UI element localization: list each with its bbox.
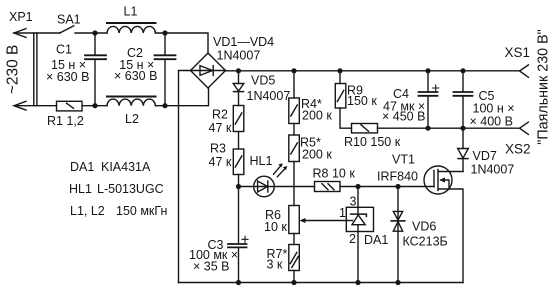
svg-text:2: 2 xyxy=(349,232,356,246)
svg-text:150 к: 150 к xyxy=(347,94,377,108)
resistor R1 label xyxy=(47,114,84,128)
wire bottom AC from XP1 to R1 xyxy=(14,105,57,107)
bridge rectifier VD1-VD4 diamond xyxy=(191,53,226,88)
capacitor C4 label xyxy=(382,87,425,124)
resistor R8 xyxy=(315,182,341,192)
svg-text:VD1—VD4: VD1—VD4 xyxy=(213,35,274,49)
diode VD7 xyxy=(462,128,464,148)
wire bottom AC from L2 to bridge bottom corner xyxy=(156,88,209,106)
zener VD6 (symmetric) xyxy=(397,187,399,283)
svg-text:HL1: HL1 xyxy=(250,154,273,168)
svg-text:× 450 В: × 450 В xyxy=(382,110,425,124)
node junction dot rail at R4 xyxy=(291,68,296,73)
svg-text:IRF840: IRF840 xyxy=(377,169,418,183)
capacitor C1 label xyxy=(46,43,89,84)
LED HL1 label xyxy=(250,154,273,168)
wire R3 to C3 through node xyxy=(238,175,240,245)
diode VD5 label xyxy=(247,74,291,104)
connector XS2 xyxy=(520,122,529,134)
svg-text:R3: R3 xyxy=(210,142,226,156)
resistor R9 xyxy=(335,84,346,109)
svg-text:XP1: XP1 xyxy=(9,10,33,24)
svg-text:× 630 В: × 630 В xyxy=(46,70,89,84)
capacitor C4 electrolytic xyxy=(427,71,429,92)
wire R9 to R10 xyxy=(340,108,352,128)
wire DA1 ref to R6 wiper xyxy=(304,220,347,222)
svg-text:VD5: VD5 xyxy=(251,74,275,88)
resistor R2 xyxy=(233,106,244,132)
svg-text:× 400 В: × 400 В xyxy=(470,115,513,129)
wire bottom AC from R1 to L2 xyxy=(82,105,107,107)
wire top AC from SA1 to L1 xyxy=(75,32,107,34)
load label Paylnik 230 V xyxy=(536,29,550,144)
capacitor C3 label xyxy=(189,238,238,274)
transistor VT1 source tap xyxy=(438,189,463,283)
inductor L1 core bar xyxy=(107,22,156,24)
node junction dot XS2 line C5 xyxy=(460,126,465,131)
bridge rectifier label VD1-VD4 1N4007 xyxy=(213,35,274,62)
capacitor C5 xyxy=(462,71,464,92)
zener VD6 label xyxy=(403,220,448,249)
svg-text:R10 150 к: R10 150 к xyxy=(344,135,401,149)
svg-text:C1: C1 xyxy=(56,43,72,57)
connector XP1 (mains plug, top arrow) xyxy=(14,29,26,38)
svg-text:3: 3 xyxy=(350,195,357,209)
capacitor C5 label xyxy=(470,89,515,129)
wire XS2 line from R10 to XS2 xyxy=(378,127,520,129)
node junction dot rail at C4 xyxy=(425,68,430,73)
svg-text:3 к: 3 к xyxy=(267,258,283,272)
diode VD7 label xyxy=(471,149,515,177)
inductor L2 label xyxy=(125,112,139,126)
transistor VT1 channel bar xyxy=(437,170,439,191)
capacitor C3 electrolytic xyxy=(228,243,247,245)
wire cable pair marks xyxy=(34,33,37,106)
inductor L1 label xyxy=(124,5,138,19)
capacitor C2 xyxy=(164,33,166,55)
svg-text:200 к: 200 к xyxy=(302,109,332,123)
svg-text:1N4007: 1N4007 xyxy=(247,89,291,103)
node junction dot bottom at C1 xyxy=(92,103,97,108)
wire R5 to R6 crossing gate line xyxy=(293,162,295,206)
svg-text:HL1L-5013UGC: HL1L-5013UGC xyxy=(69,182,164,196)
svg-text:L1: L1 xyxy=(124,5,138,19)
svg-text:VD7: VD7 xyxy=(473,149,497,163)
wire negative: bridge left corner down to bottom rail xyxy=(179,71,191,283)
switch SA1 label xyxy=(57,13,81,27)
svg-text:L1, L2150 мкГн: L1, L2150 мкГн xyxy=(70,204,167,218)
connector XP1 label xyxy=(9,10,33,24)
node junction dot bottom rail C3 xyxy=(236,280,241,285)
node junction dot rail at VD5 xyxy=(236,68,241,73)
svg-text:~230 В: ~230 В xyxy=(4,45,21,95)
diode VD5 xyxy=(238,71,240,84)
svg-text:200 к: 200 к xyxy=(302,148,332,162)
svg-text:XS1: XS1 xyxy=(505,45,531,60)
svg-text:47 к: 47 к xyxy=(209,155,232,169)
node junction dot top at C1 xyxy=(92,30,97,35)
svg-text:DA1: DA1 xyxy=(364,233,388,247)
node junction dot R3/HL1/C3 xyxy=(236,184,241,189)
svg-text:XS2: XS2 xyxy=(505,142,531,157)
svg-text:100 н ×: 100 н × xyxy=(473,102,515,116)
transistor VT1 substrate arrow xyxy=(441,180,449,189)
wire R6 to R7 xyxy=(293,234,295,245)
resistor R7 xyxy=(289,245,300,271)
wire top AC from L1 to bridge top corner xyxy=(156,33,209,53)
wire top AC from XP1 to SA1 xyxy=(14,32,60,34)
node junction dot bottom rail VD6 xyxy=(395,280,400,285)
resistor R4 xyxy=(289,98,300,124)
node junction dot gate line DA1 xyxy=(355,184,360,189)
wire bottom rail xyxy=(179,282,464,284)
svg-text:L2: L2 xyxy=(125,112,139,126)
node junction dot bottom rail R7 xyxy=(291,280,296,285)
resistor R5 xyxy=(289,135,300,162)
wire between R4 and R5 xyxy=(293,124,295,136)
node junction dot top at C2 xyxy=(162,30,167,35)
svg-text:"Паяльник 230 В": "Паяльник 230 В" xyxy=(536,29,550,144)
regulator DA1 pin labels xyxy=(339,195,388,248)
parts list text block xyxy=(69,160,167,218)
svg-text:R1 1,2: R1 1,2 xyxy=(47,114,84,128)
inductor L2 core bar xyxy=(107,96,156,98)
inductor L2 winding xyxy=(107,99,155,106)
LED HL1 xyxy=(254,176,275,197)
node junction dot bottom at C2 xyxy=(162,103,167,108)
regulator DA1 xyxy=(357,187,359,208)
svg-text:R8 10 к: R8 10 к xyxy=(313,167,356,181)
node junction dot bottom rail DA1 xyxy=(355,280,360,285)
connector XS1 xyxy=(520,65,529,77)
capacitor C1 xyxy=(94,33,96,55)
node junction dot rail at R9 xyxy=(337,68,342,73)
wire between R2 and R3 xyxy=(238,132,240,150)
svg-text:КС213Б: КС213Б xyxy=(403,235,448,249)
capacitor C2 label xyxy=(114,46,157,83)
node junction dot rail at C5 xyxy=(460,68,465,73)
wire R7 to bottom rail xyxy=(293,271,295,283)
transistor VT1 circle xyxy=(424,166,452,194)
node junction dot XS2 line C4 xyxy=(425,126,430,131)
transistor VT1 label xyxy=(377,153,418,184)
resistor R3 xyxy=(233,149,244,175)
transistor VT1 drain tap to VD7 xyxy=(438,171,463,173)
svg-text:× 630 В: × 630 В xyxy=(114,69,157,83)
svg-text:10 к: 10 к xyxy=(264,220,287,234)
node ~230 V label xyxy=(4,45,21,95)
connector XP1 (mains plug, bottom arrow) xyxy=(14,101,26,110)
wire rail to R4 xyxy=(293,71,295,98)
svg-text:VT1: VT1 xyxy=(392,153,415,167)
svg-text:DA1KIA431A: DA1KIA431A xyxy=(70,160,151,174)
svg-text:VD6: VD6 xyxy=(412,220,436,234)
svg-text:1N4007: 1N4007 xyxy=(471,163,515,177)
svg-text:1: 1 xyxy=(339,206,346,220)
wire HL1 gate line xyxy=(239,186,435,188)
wire positive rail from bridge right corner to XS1 xyxy=(226,70,520,72)
inductor L1 winding xyxy=(107,26,155,33)
svg-text:R2: R2 xyxy=(212,108,228,122)
LED HL1 arrows xyxy=(274,165,282,175)
resistor R10 xyxy=(352,124,378,133)
svg-text:47 к: 47 к xyxy=(209,121,232,135)
transistor VT1 gate bar xyxy=(433,171,435,187)
potentiometer R6 xyxy=(289,206,300,234)
resistor R1 xyxy=(57,101,83,111)
svg-text:SA1: SA1 xyxy=(57,13,81,27)
bridge rectifier inner diode xyxy=(191,70,226,72)
wire rail to R9 xyxy=(339,71,341,84)
svg-text:× 35 В: × 35 В xyxy=(193,260,230,274)
svg-text:1N4007: 1N4007 xyxy=(217,48,261,62)
switch SA1 blade xyxy=(60,26,74,33)
node junction dot gate line VD6 xyxy=(395,184,400,189)
